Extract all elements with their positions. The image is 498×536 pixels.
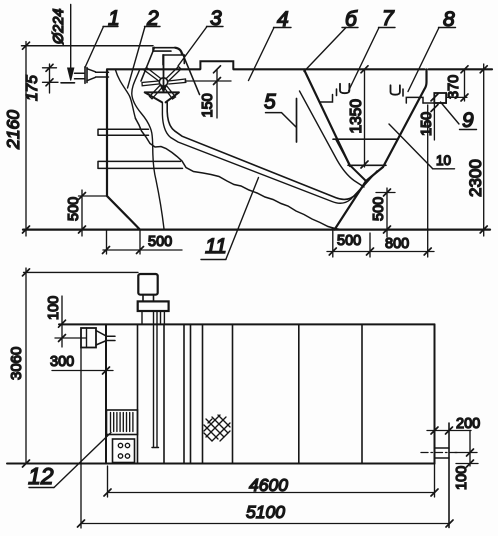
svg-text:4600: 4600 <box>249 475 288 495</box>
svg-text:500: 500 <box>66 197 82 221</box>
svg-text:200: 200 <box>456 416 480 432</box>
svg-text:2: 2 <box>146 7 159 30</box>
svg-text:9: 9 <box>462 109 474 132</box>
svg-text:5100: 5100 <box>246 502 285 522</box>
svg-text:11: 11 <box>205 235 227 258</box>
svg-text:5: 5 <box>264 91 276 114</box>
svg-text:500: 500 <box>371 197 387 221</box>
svg-text:500: 500 <box>148 234 172 250</box>
svg-text:2160: 2160 <box>3 110 23 150</box>
svg-text:150: 150 <box>200 93 216 117</box>
svg-text:150: 150 <box>419 112 435 136</box>
svg-text:2300: 2300 <box>466 159 485 197</box>
svg-text:370: 370 <box>446 75 462 99</box>
svg-text:3060: 3060 <box>8 347 25 380</box>
svg-text:Ø224: Ø224 <box>51 9 67 45</box>
svg-text:1350: 1350 <box>348 99 365 134</box>
svg-text:10: 10 <box>436 153 451 168</box>
svg-text:800: 800 <box>385 236 409 252</box>
svg-text:4: 4 <box>277 8 289 31</box>
svg-text:300: 300 <box>50 354 74 370</box>
svg-text:175: 175 <box>24 75 41 101</box>
svg-text:12: 12 <box>28 463 54 489</box>
svg-text:100: 100 <box>46 296 62 320</box>
svg-text:3: 3 <box>210 7 222 30</box>
svg-text:100: 100 <box>454 466 470 490</box>
svg-text:7: 7 <box>382 7 395 30</box>
svg-text:1: 1 <box>108 7 120 30</box>
svg-text:500: 500 <box>337 233 361 249</box>
svg-text:б: б <box>345 8 358 31</box>
svg-text:8: 8 <box>443 8 455 31</box>
